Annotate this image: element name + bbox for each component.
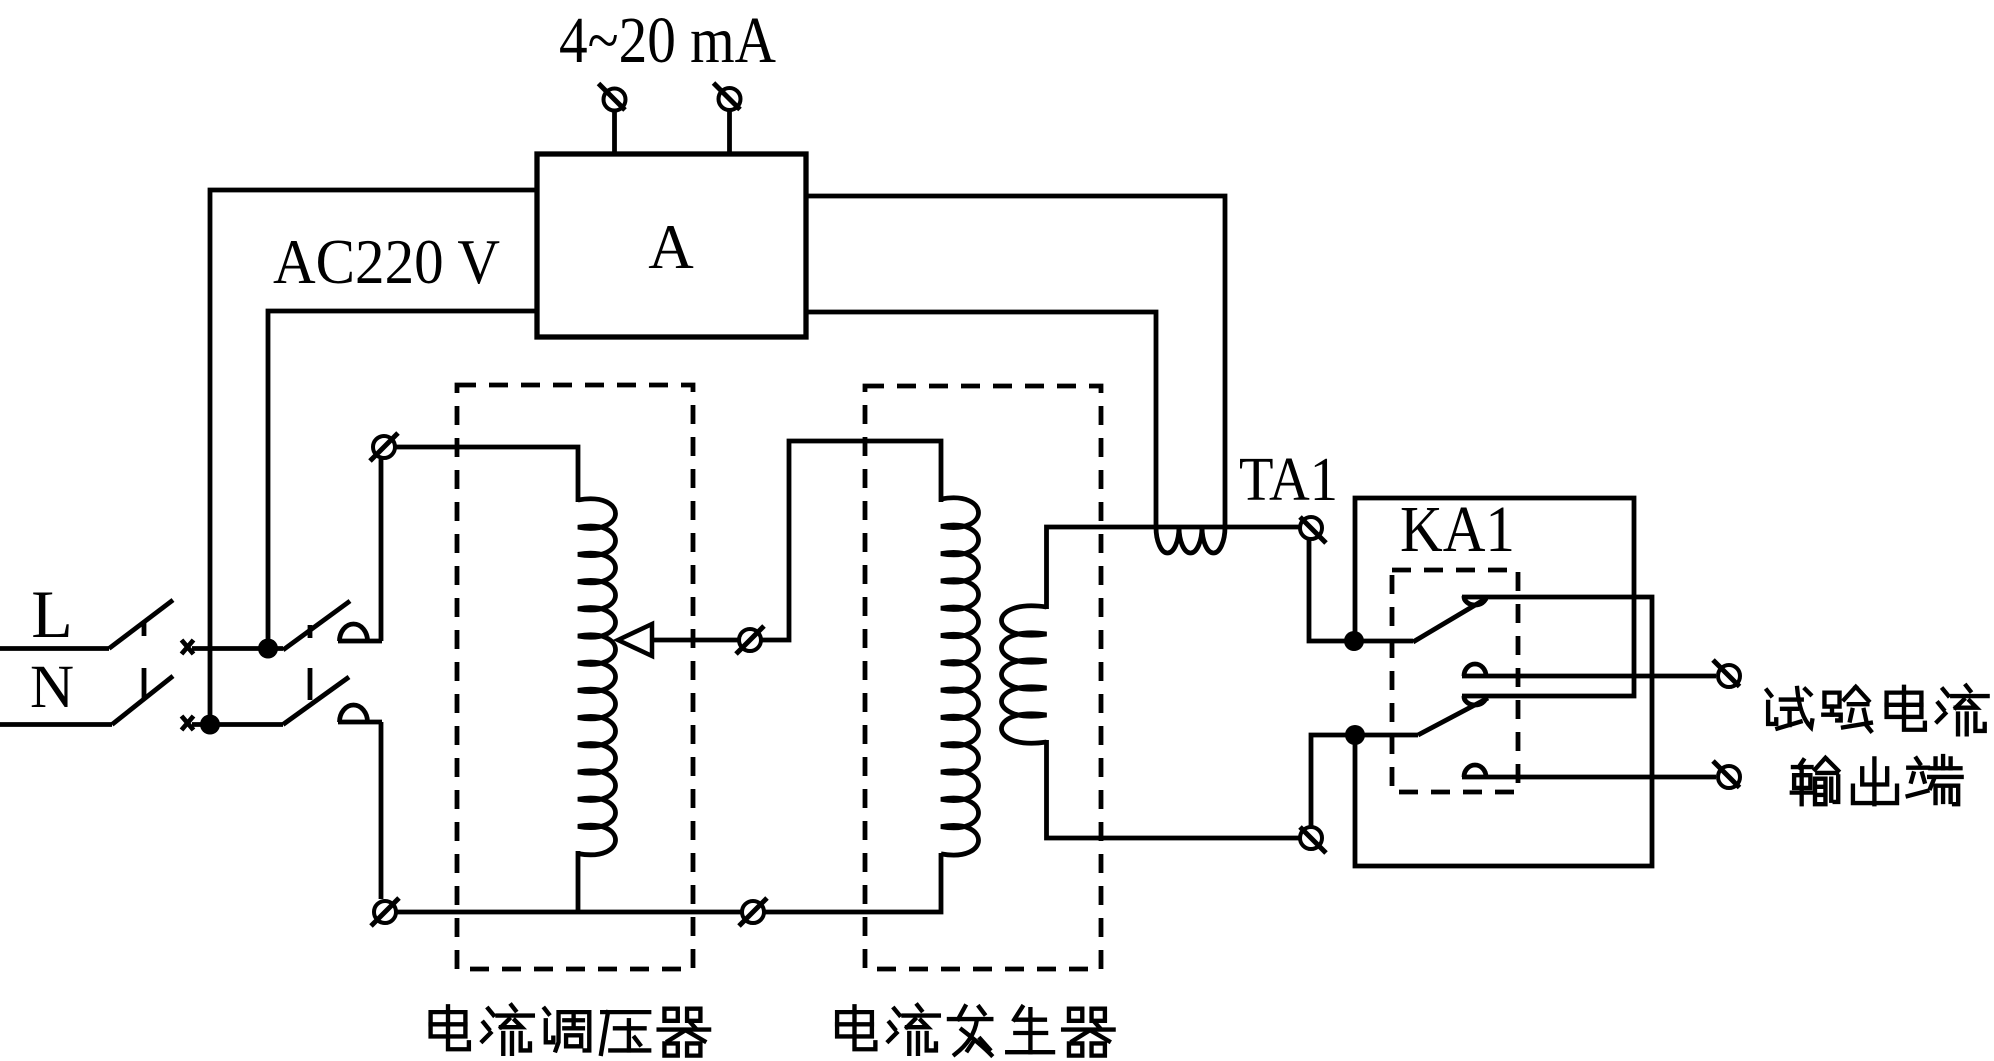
wire secondary bottom to TA1 terminal	[1047, 740, 1301, 838]
wire bottom bus	[396, 853, 941, 912]
wire output 2	[1462, 775, 1716, 780]
switch S2 N-pole tick	[308, 668, 313, 700]
label current regulator (dian liu tiao ya qi)	[431, 1005, 709, 1055]
junction dot on N line	[200, 715, 220, 735]
transformer T2 primary winding	[941, 498, 979, 855]
terminal TA1 bottom	[1300, 827, 1326, 853]
relay KA1 contact 1 upper cup	[1464, 596, 1486, 605]
fuse mark x on N	[182, 716, 194, 730]
wire ammeter right-bottom to TA1 coil	[806, 312, 1156, 525]
terminal variac top	[370, 433, 398, 461]
ammeter controller U1 box	[537, 154, 806, 337]
wire ammeter left-bottom to L line	[268, 311, 537, 649]
current transformer TA1 coil	[1156, 527, 1225, 553]
terminal wiper	[736, 626, 764, 654]
variac wiper arrow	[618, 624, 652, 656]
switch S1 L-pole tick	[142, 622, 147, 636]
wire secondary top to TA1 terminal	[1047, 527, 1301, 609]
relay KA1 contact 2 lower contact	[1464, 765, 1486, 777]
svg-text:AC220 V: AC220 V	[273, 226, 500, 297]
transformer T2 secondary winding	[1002, 606, 1047, 743]
junction dot on L line	[258, 639, 278, 659]
svg-text:KA1: KA1	[1400, 493, 1515, 566]
wire ammeter left-top to N line	[210, 190, 537, 725]
dashed box voltage regulator T1	[457, 385, 693, 969]
wire L input	[0, 646, 109, 651]
wire variac coil bottom lead	[576, 851, 581, 912]
relay KA1 contact blade 1	[1413, 598, 1487, 642]
terminal output 2	[1713, 761, 1740, 788]
wire TA1 bottom terminal to relay common 2	[1311, 735, 1418, 827]
terminal TA1 top	[1300, 517, 1326, 543]
switch S2 L-pole tick	[308, 625, 313, 638]
switch S2 L-pole blade	[283, 601, 350, 650]
wire variac top terminal to coil	[395, 447, 578, 502]
wire KA1 cross link 1	[1355, 498, 1634, 696]
junction dot relay common 2	[1345, 725, 1365, 745]
relay KA1 contact blade 2	[1418, 698, 1488, 735]
terminal output 1	[1713, 660, 1740, 687]
wire stem mA terminal 2	[727, 108, 732, 156]
switch S1 N-pole blade	[112, 676, 173, 725]
wire wiper terminal to transformer primary	[761, 441, 941, 640]
dashed box current generator T2	[865, 386, 1101, 969]
wire ammeter right-top to TA1 coil	[806, 196, 1225, 525]
svg-text:4~20 mA: 4~20 mA	[559, 4, 776, 77]
switch S1 L-pole blade	[109, 600, 173, 649]
wire KA1 cross link 2	[1355, 597, 1652, 866]
junction dot relay common 1	[1344, 631, 1364, 651]
switch S2 N-pole fixed contact hook	[338, 705, 382, 899]
switch S2 N-pole blade	[283, 677, 349, 725]
switch S2 L-pole fixed contact hook	[338, 459, 382, 641]
fuse mark x on L	[182, 640, 194, 654]
relay KA1 contact 1 lower contact	[1464, 664, 1486, 676]
wire TA1 top terminal to relay common 1	[1309, 539, 1413, 641]
label current generator (dian liu fa sheng qi)	[837, 1005, 1114, 1055]
variac coil T1 winding	[578, 499, 616, 855]
wire output 1	[1462, 674, 1716, 679]
svg-text:A: A	[648, 212, 694, 282]
dashed box relay KA1 contacts	[1392, 570, 1518, 792]
wire wiper to terminal	[652, 638, 739, 643]
wire stem mA terminal 1	[612, 108, 617, 156]
wire N mid segment	[192, 722, 283, 727]
svg-text:TA1: TA1	[1239, 446, 1338, 514]
terminal mA 2	[714, 83, 741, 110]
svg-text:L: L	[31, 576, 73, 652]
label test current output line 2 (shu chu duan)	[1792, 756, 1962, 804]
wire N input	[0, 722, 112, 727]
terminal bottom left	[371, 898, 399, 926]
switch S1 N-pole tick	[142, 668, 147, 700]
terminal bottom right	[739, 898, 767, 926]
label test current output line 1 (shi yan dian liu)	[1767, 686, 1988, 735]
relay KA1 contact 2 upper cup	[1464, 696, 1486, 705]
svg-text:N: N	[30, 654, 74, 721]
wire L mid segment	[192, 646, 283, 651]
terminal mA 1	[599, 84, 626, 111]
